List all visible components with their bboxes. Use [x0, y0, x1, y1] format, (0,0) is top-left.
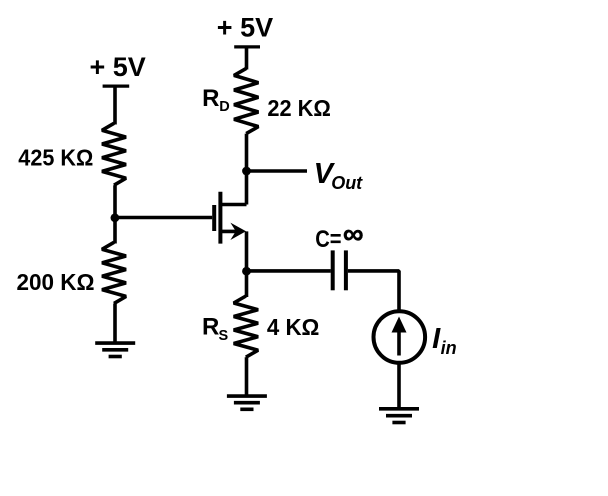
- svg-text:in: in: [441, 338, 457, 358]
- transistor Q1 gate bar: [212, 205, 216, 231]
- capacitor C right plate: [344, 250, 348, 290]
- current source arrow head: [392, 317, 407, 333]
- transistor Q1 source arrow: [230, 223, 246, 240]
- node B drain Vout junction: [242, 167, 251, 176]
- current source arrow shaft: [397, 331, 401, 356]
- transistor Q1 drain lead: [220, 203, 246, 207]
- svg-text:∞: ∞: [343, 219, 364, 251]
- svg-text:200 KΩ: 200 KΩ: [17, 269, 95, 295]
- svg-text:Out: Out: [331, 173, 363, 193]
- wire: [245, 47, 249, 70]
- wire: [245, 357, 249, 396]
- wire gate lead: [115, 216, 212, 220]
- node A gate divider junction: [111, 213, 120, 222]
- ground left: [95, 341, 135, 345]
- svg-text:+ 5V: + 5V: [217, 13, 273, 43]
- resistor R1 425 KOhm: [102, 123, 126, 185]
- wire: [113, 303, 117, 343]
- transistor Q1 channel bar: [218, 192, 222, 244]
- wire source down: [245, 231, 249, 297]
- resistor R2 200 KOhm: [102, 242, 126, 303]
- wire: [113, 185, 117, 243]
- wire capacitor to current source corner: [348, 271, 399, 313]
- current source I1 circle: [374, 311, 426, 363]
- power rail bar +5V middle: [234, 45, 260, 48]
- node C source junction: [242, 267, 251, 276]
- ground middle: [227, 394, 267, 398]
- svg-text:D: D: [219, 99, 229, 115]
- transistor Q1 source lead: [220, 230, 238, 234]
- svg-text:R: R: [202, 85, 219, 112]
- svg-text:C=: C=: [315, 226, 341, 253]
- resistor RD 22 KOhm: [234, 68, 258, 133]
- svg-text:22 KΩ: 22 KΩ: [267, 95, 331, 121]
- wire drain: [245, 134, 249, 205]
- wire source to capacitor: [247, 269, 331, 273]
- resistor RS 4 KOhm: [234, 296, 258, 357]
- svg-text:425 KΩ: 425 KΩ: [18, 145, 93, 171]
- wire: [113, 86, 117, 124]
- wire Vout tap: [247, 169, 308, 173]
- wire: [397, 362, 401, 409]
- svg-text:R: R: [202, 313, 219, 340]
- svg-text:S: S: [219, 328, 229, 344]
- capacitor C left plate: [331, 250, 335, 290]
- power rail bar +5V left: [103, 84, 130, 87]
- ground right: [379, 407, 419, 411]
- svg-text:+ 5V: + 5V: [90, 52, 146, 82]
- svg-text:4 KΩ: 4 KΩ: [267, 314, 320, 340]
